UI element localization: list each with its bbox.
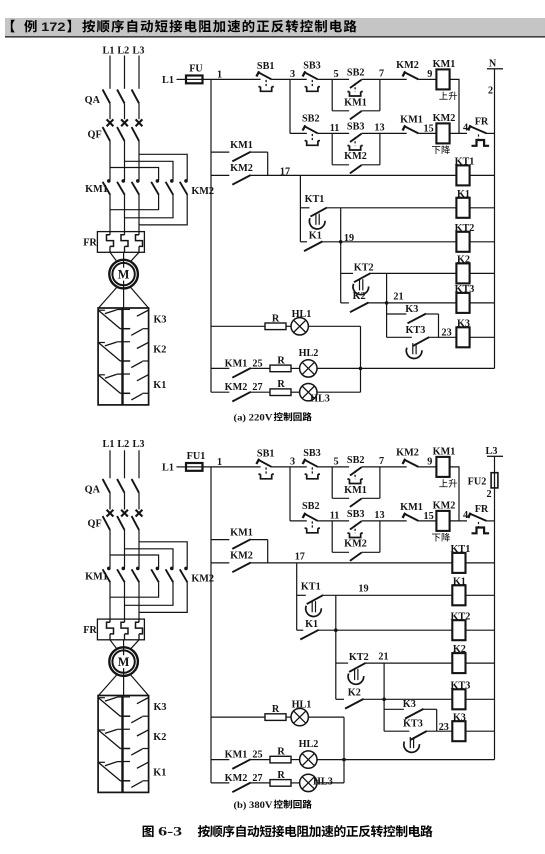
svg-text:KM2: KM2 — [396, 447, 419, 458]
thermal contact FR (NC) (a) — [468, 116, 489, 146]
contact KT3 delayed (NC) (a) — [387, 325, 430, 359]
wire phase L1 drop (b) — [109, 450, 111, 478]
svg-text:11: 11 — [330, 511, 340, 522]
wire coil K3 to rail (b) — [466, 730, 495, 732]
wire KM2 pole 1 rejoin (a) — [110, 195, 159, 210]
wire KM1 pole 3 to FR (a) — [138, 195, 140, 232]
wire SB3 to KM1 contact row2 (a) — [362, 132, 407, 134]
wire QF out L1 (b) — [109, 530, 111, 568]
svg-text:L3: L3 — [486, 446, 498, 457]
wire motor to resistor bank (b) — [99, 674, 118, 695]
wire KT2 rung (a) — [323, 241, 457, 243]
svg-text:KT2: KT2 — [450, 611, 470, 622]
coil KM2 (lower) (b) — [432, 500, 455, 541]
svg-text:K3: K3 — [453, 712, 466, 723]
node N rail (a) — [487, 58, 503, 368]
svg-text:2: 2 — [488, 86, 493, 97]
svg-text:KT2: KT2 — [349, 652, 369, 663]
coil K2 (a) — [456, 255, 470, 284]
svg-text:HL2: HL2 — [299, 739, 319, 750]
coil KT3 (a) — [455, 284, 475, 313]
pushbutton SB2 row1 (NO) (a) — [347, 67, 365, 96]
contact KM1 NC row2 (b) — [400, 502, 423, 521]
svg-text:23: 23 — [442, 328, 452, 339]
wire KM1 pole 1 to FR (b) — [109, 582, 111, 619]
svg-text:KT1: KT1 — [450, 544, 470, 555]
wire KM1 pole 2 to FR (a) — [124, 195, 126, 232]
lamp HL2 (b) — [291, 739, 318, 768]
wire coil KT1 to rail (b) — [466, 562, 495, 564]
svg-text:L2: L2 — [117, 439, 129, 450]
svg-text:KT2: KT2 — [354, 263, 374, 274]
svg-text:3: 3 — [290, 69, 295, 80]
wire SB1 to SB3 (a) — [272, 78, 307, 80]
pushbutton SB1 (NC) (a) — [256, 61, 274, 91]
wire KM2 coil to FR (b) — [450, 520, 467, 522]
svg-text:K2: K2 — [457, 255, 470, 266]
contact KM2 NC row1 (a) — [396, 60, 419, 80]
coil KM1 (raise) (a) — [433, 59, 457, 100]
wire jumper to KM2 pole 2 (b) — [125, 549, 174, 568]
pushbutton SB1 (NC) (b) — [256, 449, 274, 479]
thermal relay FR heaters (a) — [83, 232, 144, 253]
svg-text:13: 13 — [374, 123, 384, 134]
svg-text:K2: K2 — [348, 688, 361, 699]
svg-text:KM2: KM2 — [230, 163, 253, 174]
lamp HL1 (b) — [286, 700, 311, 726]
motor M (b) — [123, 647, 125, 676]
svg-text:KT3: KT3 — [455, 284, 475, 295]
wire KM2 coil to FR (a) — [450, 132, 467, 134]
svg-text:KM1: KM1 — [344, 485, 367, 496]
wire ladder vertical V2 (b) — [335, 595, 337, 699]
svg-text:K1: K1 — [457, 189, 470, 200]
svg-text:FR: FR — [475, 116, 489, 127]
wire row1 to SB1 (b) — [203, 466, 261, 468]
contact KT1 delayed (NC) (a) — [300, 194, 327, 229]
svg-text:K2: K2 — [153, 345, 166, 356]
thermal contact FR (NC) (b) — [468, 504, 489, 534]
KM1 self-hold branch (a) — [332, 79, 380, 119]
wire coil KT1 to rail (a) — [470, 174, 495, 176]
starting resistor bank with contacts K3 K2 K1 (a) — [98, 308, 149, 405]
svg-text:K3: K3 — [403, 699, 416, 710]
wire HL3 to collector (a) — [317, 391, 361, 393]
svg-text:SB2: SB2 — [302, 114, 320, 125]
wire FR to motor (b) — [110, 640, 117, 649]
svg-text:HL2: HL2 — [299, 348, 319, 359]
contact KM1 aux (NO) (b) — [211, 527, 268, 563]
svg-text:K3: K3 — [405, 304, 418, 315]
svg-text:K1: K1 — [453, 576, 466, 587]
contact K1 (NO) (a) — [300, 230, 322, 251]
svg-text:HL1: HL1 — [292, 309, 312, 320]
wire HL2 to right rail (a) — [317, 367, 495, 369]
wire QF out L2 (a) — [124, 141, 126, 180]
wire KM1 coil to row2 (b) — [450, 467, 459, 521]
wire FR to rail (b) — [487, 520, 495, 522]
wire left rail (a) — [210, 79, 212, 392]
header bar — [5, 18, 545, 37]
node L3 rail (b) — [486, 446, 503, 760]
resistor R (HL1) (b) — [265, 714, 286, 721]
svg-text:6-3: 6-3 — [158, 825, 182, 839]
svg-text:4: 4 — [463, 510, 468, 521]
svg-text:R: R — [272, 704, 280, 715]
lamp HL1 (a) — [286, 309, 311, 335]
svg-text:HL3: HL3 — [310, 393, 330, 404]
svg-text:QF: QF — [88, 519, 102, 530]
svg-text:K3: K3 — [153, 702, 166, 713]
KM1 self-hold branch (b) — [332, 467, 380, 507]
coil KT2 (b) — [450, 611, 470, 640]
wire QF out L3 (b) — [138, 530, 140, 568]
junction node 21 (b) — [382, 698, 386, 702]
svg-text:SB3: SB3 — [303, 448, 321, 459]
resistor R (HL2) (b) — [270, 756, 291, 763]
svg-text:5: 5 — [333, 69, 338, 80]
svg-text:QF: QF — [88, 130, 102, 141]
svg-text:17: 17 — [280, 166, 290, 177]
svg-text:L1: L1 — [103, 439, 115, 450]
wire ladder vertical V1 (b) — [296, 563, 298, 630]
svg-text:KM1: KM1 — [344, 97, 367, 108]
wire SB3 to KM1 contact row2 (b) — [362, 520, 407, 522]
svg-text:K2: K2 — [453, 644, 466, 655]
coil KT1 (a) — [455, 157, 475, 186]
pushbutton SB2 row2 (NC) (a) — [302, 114, 320, 146]
wire jumper to KM2 pole 1 (b) — [110, 555, 159, 568]
lamp HL3 (b) — [291, 774, 333, 791]
wire phase L3 drop (a) — [138, 56, 140, 89]
svg-text:13: 13 — [374, 510, 384, 521]
resistor R (HL2) (a) — [270, 365, 291, 372]
wire row1 to SB1 (a) — [203, 78, 261, 80]
wire coil KT2 to rail (a) — [470, 241, 495, 243]
disconnect switch QA (a) — [85, 90, 139, 120]
svg-text:4: 4 — [463, 123, 468, 134]
svg-text:L1: L1 — [162, 75, 174, 86]
svg-text:2: 2 — [486, 489, 491, 500]
svg-text:23: 23 — [439, 722, 449, 733]
svg-text:9: 9 — [427, 69, 432, 80]
pushbutton SB3 row1 (NC) (b) — [303, 448, 321, 479]
wire K1 rung (a) — [327, 207, 457, 209]
motor M (a) — [123, 260, 125, 289]
svg-text:KM2: KM2 — [344, 539, 367, 550]
wire phase L3 drop (b) — [138, 450, 140, 478]
svg-text:21: 21 — [393, 291, 403, 302]
junction node 19 (b) — [334, 628, 338, 632]
contactor KM2 main contacts (a) — [151, 179, 214, 197]
svg-text:25: 25 — [252, 358, 262, 369]
wire node17 rung to KT1 coil (b) — [251, 562, 452, 564]
wire coil K3 to rail (a) — [470, 336, 495, 338]
wire K2 rung (a) — [371, 272, 457, 274]
svg-text:SB2: SB2 — [347, 67, 365, 78]
wire HL3 to collector (b) — [317, 782, 344, 784]
wire phase L2 drop (b) — [124, 450, 126, 478]
wire node17 rung to KT1 coil (a) — [251, 174, 457, 176]
wire KT2 rung (b) — [319, 629, 453, 631]
thermal relay FR heaters (b) — [83, 619, 144, 640]
fuse FU1 (b) — [186, 463, 203, 471]
KM2 self-hold branch (b) — [332, 521, 380, 561]
wire row2 start (a) — [290, 132, 307, 134]
wire jumper to KM2 pole 3 (b) — [139, 542, 187, 568]
figure caption 图6-3 — [143, 825, 433, 839]
wire coil K1 to rail (b) — [466, 594, 495, 596]
svg-text:K3: K3 — [153, 314, 166, 325]
svg-text:KM1: KM1 — [230, 527, 253, 538]
svg-text:KM1: KM1 — [85, 571, 108, 582]
contact K3 (NO) (a) — [387, 304, 439, 338]
svg-text:1: 1 — [217, 457, 222, 468]
svg-text:KM2: KM2 — [225, 382, 248, 393]
svg-text:M: M — [118, 655, 130, 669]
fuse FU2 (b) — [468, 473, 498, 488]
wire KT3 rung (b) — [364, 698, 453, 700]
wire coil K1 to rail (a) — [470, 207, 495, 209]
resistor R (HL3) (b) — [270, 780, 291, 787]
svg-text:FU2: FU2 — [468, 477, 487, 488]
wire coil KT3 to rail (b) — [466, 698, 495, 700]
wire HL1 to collector (b) — [308, 716, 344, 718]
coil KT1 (b) — [450, 544, 470, 573]
pushbutton SB3 row2 (NO) (a) — [347, 121, 365, 150]
starting resistor bank with contacts K3 K2 K1 (b) — [98, 696, 149, 793]
svg-text:K1: K1 — [305, 619, 318, 630]
svg-text:HL3: HL3 — [313, 776, 333, 787]
svg-text:27: 27 — [252, 773, 262, 784]
coil K1 (b) — [452, 576, 466, 605]
wire K3 rung (a) — [429, 336, 456, 338]
wire phase L2 drop (a) — [124, 56, 126, 89]
wire HL1 to collector (a) — [308, 325, 360, 327]
wire to KM2 coil (a) — [418, 132, 436, 134]
svg-text:SB3: SB3 — [303, 60, 321, 71]
svg-text:KM2: KM2 — [396, 60, 419, 71]
wire K2 rung (b) — [366, 662, 453, 664]
contactor KM2 main contacts (b) — [151, 567, 214, 585]
svg-text:SB1: SB1 — [257, 61, 275, 72]
coil KT3 (b) — [450, 680, 470, 709]
wire KM2 pole 3 rejoin (a) — [139, 195, 187, 225]
disconnect switch QA (b) — [85, 479, 139, 510]
wire ladder vertical V4 (a) — [386, 273, 388, 337]
svg-text:FU: FU — [189, 63, 203, 74]
coil KM1 (raise) (b) — [433, 447, 457, 488]
svg-text:(a) 220V: (a) 220V — [234, 412, 273, 423]
wire SB2 to SB3 row2 (a) — [318, 132, 349, 134]
svg-text:KM1: KM1 — [225, 358, 248, 369]
wire to R HL3 (b) — [251, 782, 270, 784]
svg-text:R: R — [277, 770, 285, 781]
wire motor to resistor bank (a) — [99, 287, 118, 308]
svg-text:SB1: SB1 — [257, 449, 275, 460]
wire row2 start (b) — [290, 520, 307, 522]
wire HL1 rung (b) — [211, 716, 265, 718]
pushbutton SB3 row1 (NC) (a) — [303, 60, 321, 91]
svg-text:L3: L3 — [133, 439, 145, 450]
coil K3 (a) — [456, 318, 470, 347]
svg-text:KM2: KM2 — [433, 113, 456, 124]
junction node 19 (a) — [339, 240, 343, 244]
wire node3 rail (b) — [289, 467, 291, 521]
wire KM2 pole 2 rejoin (b) — [125, 582, 174, 605]
svg-text:17: 17 — [295, 551, 305, 562]
svg-text:K1: K1 — [153, 768, 166, 779]
fuse FU (a) — [186, 76, 203, 84]
wire coil KT3 to rail (a) — [470, 302, 495, 304]
svg-text:5: 5 — [333, 456, 338, 467]
pushbutton SB2 row1 (NO) (b) — [347, 455, 365, 484]
svg-text:FR: FR — [475, 504, 489, 515]
svg-text:19: 19 — [344, 233, 354, 244]
circuit breaker QF (a) — [88, 119, 143, 140]
svg-text:R: R — [277, 355, 285, 366]
wire FR to rail (a) — [487, 132, 495, 134]
svg-text:SB3: SB3 — [347, 121, 365, 132]
contactor KM1 main contacts (b) — [85, 567, 139, 583]
wire K1 rung (b) — [323, 594, 452, 596]
svg-text:L1: L1 — [162, 462, 174, 473]
wire coil K2 to rail (b) — [466, 662, 495, 664]
svg-text:21: 21 — [378, 651, 388, 662]
wire to R HL2 (b) — [251, 759, 270, 761]
contact K3 (NO) (b) — [384, 699, 437, 731]
wire node3 rail (a) — [289, 79, 291, 133]
wire jumper to KM2 pole 2 (a) — [125, 161, 174, 180]
contact KM2 aux (NO) (a) — [211, 163, 253, 185]
wire SB1 to SB3 (b) — [272, 466, 307, 468]
coil K1 (a) — [456, 189, 470, 218]
svg-text:KM1: KM1 — [433, 59, 456, 70]
wire KM1 pole 2 to FR (b) — [124, 582, 126, 619]
coil KT2 (a) — [455, 223, 475, 252]
wire coil KT2 to rail (b) — [466, 629, 495, 631]
svg-text:1: 1 — [217, 70, 222, 81]
circuit breaker QF (b) — [88, 510, 143, 530]
svg-text:L3: L3 — [133, 46, 145, 57]
svg-text:FR: FR — [83, 237, 97, 248]
svg-text:QA: QA — [85, 95, 101, 106]
wire ladder vertical V1 (a) — [299, 175, 301, 241]
wire to KM1 coil (a) — [418, 78, 436, 80]
svg-text:3: 3 — [290, 457, 295, 468]
lamp HL2 (a) — [291, 348, 318, 377]
contact K2 (NO) (a) — [341, 291, 369, 312]
svg-text:SB2: SB2 — [347, 455, 365, 466]
svg-text:KM1: KM1 — [400, 502, 423, 513]
svg-text:KM2: KM2 — [433, 500, 456, 511]
wire jumper to KM2 pole 3 (a) — [139, 154, 187, 180]
svg-text:(b) 380V: (b) 380V — [234, 800, 273, 811]
svg-text:K3: K3 — [457, 318, 470, 329]
wire KM1 pole 3 to FR (b) — [138, 582, 140, 619]
svg-text:K1: K1 — [309, 230, 322, 241]
svg-text:SB3: SB3 — [347, 509, 365, 520]
svg-text:KM2: KM2 — [344, 151, 367, 162]
lamp HL3 (a) — [291, 384, 330, 405]
contact KT2 delayed (NC) (b) — [336, 652, 369, 684]
svg-text:19: 19 — [358, 583, 368, 594]
svg-text:SB2: SB2 — [302, 501, 320, 512]
svg-text:L1: L1 — [103, 46, 115, 57]
svg-text:KM2: KM2 — [230, 550, 253, 561]
svg-text:KT3: KT3 — [403, 719, 423, 730]
wire QF out L3 (a) — [138, 141, 140, 180]
wire phase L1 drop (a) — [109, 56, 111, 89]
coil KM2 (lower) (a) — [432, 113, 455, 154]
svg-text:HL1: HL1 — [292, 700, 312, 711]
svg-text:11: 11 — [330, 123, 340, 134]
junction HL2 collector (b) — [342, 758, 346, 762]
wire KM2 pole 2 rejoin (a) — [125, 195, 174, 218]
svg-text:K2: K2 — [153, 732, 166, 743]
svg-text:KT1: KT1 — [305, 194, 325, 205]
wire HL2 to right rail (b) — [317, 759, 495, 761]
wire ladder vertical V2 (a) — [340, 208, 342, 303]
contact K2 (NO) (b) — [336, 688, 364, 709]
contact KM2 lamp (NO) (b) — [211, 773, 251, 792]
wire SB2 to KM2 contact (a) — [362, 78, 407, 80]
svg-text:FU1: FU1 — [187, 451, 206, 462]
svg-text:KM1: KM1 — [225, 750, 248, 761]
svg-text:KT3: KT3 — [450, 680, 470, 691]
svg-text:27: 27 — [252, 382, 262, 393]
svg-text:M: M — [118, 268, 130, 282]
wire to KM2 coil (b) — [418, 520, 436, 522]
svg-text:KM1: KM1 — [230, 140, 253, 151]
coil K2 (b) — [452, 644, 466, 673]
header title text — [11, 20, 357, 34]
wire QF out L1 (a) — [109, 141, 111, 180]
svg-text:N: N — [489, 58, 497, 69]
svg-text:KT2: KT2 — [455, 223, 475, 234]
svg-text:FR: FR — [83, 625, 97, 636]
contact KM1 lamp (NO) (a) — [211, 358, 251, 377]
svg-text:KT1: KT1 — [455, 157, 475, 168]
pushbutton SB2 row2 (NC) (b) — [302, 501, 320, 533]
svg-text:L2: L2 — [117, 46, 129, 57]
wire KM2 pole 1 rejoin (b) — [110, 582, 159, 597]
contact KT1 delayed (NC) (b) — [297, 581, 324, 616]
svg-text:9: 9 — [427, 457, 432, 468]
wire ladder vertical V4 (b) — [383, 663, 385, 731]
svg-text:K1: K1 — [153, 380, 166, 391]
svg-text:7: 7 — [379, 69, 384, 80]
wire left rail (b) — [210, 467, 212, 783]
svg-text:R: R — [277, 747, 285, 758]
wire SB3 to SB2 (a) — [318, 78, 349, 80]
svg-text:KT1: KT1 — [301, 581, 321, 592]
svg-text:K2: K2 — [353, 291, 366, 302]
wire coil K2 to rail (a) — [470, 272, 495, 274]
wire SB3 to SB2 (b) — [318, 466, 349, 468]
wire KM1 pole 1 to FR (a) — [109, 195, 111, 232]
contact KM2 lamp (NO) (a) — [211, 382, 251, 401]
wire KM1 coil to row2 (a) — [450, 79, 459, 133]
wire jumper to KM2 pole 1 (a) — [110, 168, 159, 181]
wire QF out L2 (b) — [124, 530, 126, 568]
junction node 21 (a) — [385, 301, 389, 305]
wire to KM1 coil (b) — [418, 466, 436, 468]
svg-text:QA: QA — [85, 484, 101, 495]
svg-text:KM1: KM1 — [85, 184, 108, 195]
svg-text:25: 25 — [252, 750, 262, 761]
svg-text:15: 15 — [424, 124, 434, 135]
